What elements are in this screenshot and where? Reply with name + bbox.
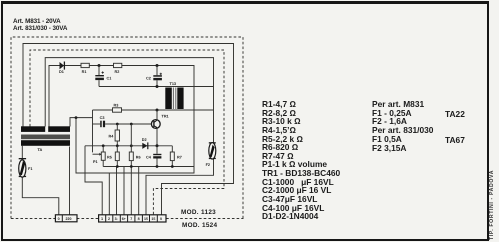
wire: collector rail with R3 [93, 109, 214, 111]
node: C4 bottom [156, 165, 159, 168]
node: R6 riser top [130, 123, 133, 126]
capacitor C4 [146, 146, 161, 167]
wire: stage left vertical [92, 110, 94, 152]
svg-text:C2: C2 [146, 77, 151, 81]
parts list right column [372, 100, 433, 152]
wire: fuse F1 branch to terminal 0 [22, 146, 59, 215]
wire: base wire [110, 123, 151, 125]
svg-text:C1: C1 [107, 77, 112, 81]
node: P1 top [102, 144, 105, 147]
terminal block mains 0/220 [55, 215, 77, 222]
dashed module boundary line through terminals [11, 218, 244, 220]
wire: cell4 stub [123, 167, 125, 216]
title line 1 [13, 19, 61, 25]
wire: bias rail (rail4) [85, 145, 172, 147]
svg-text:8: 8 [138, 217, 140, 221]
capacitor C3 [93, 116, 111, 127]
wire loop C (secondary rail) [45, 58, 213, 215]
wire: positive rail below C1/C2 [99, 86, 214, 88]
svg-text:R6: R6 [136, 156, 141, 160]
node: R6 bottom [130, 165, 133, 168]
potentiometer P1 [93, 146, 106, 167]
wire: cell6 stub [138, 167, 140, 216]
svg-text:C4: C4 [146, 156, 152, 160]
transformer T13 [165, 82, 183, 109]
svg-text:0: 0 [160, 217, 162, 221]
printer credit (vertical) [490, 169, 495, 239]
svg-text:220: 220 [66, 217, 72, 221]
wire: top supply rail with rectifier [49, 66, 194, 216]
capacitor C1 [95, 66, 111, 87]
svg-text:T13: T13 [170, 82, 177, 86]
resistor R1 [81, 63, 89, 74]
node: C2 tap [156, 64, 159, 67]
node: R5 bottom [116, 165, 119, 168]
wire loop A (outer solid rail) [23, 44, 234, 216]
svg-text:R3: R3 [114, 103, 119, 107]
svg-text:TA: TA [38, 148, 43, 152]
board label MOD. 1524 [182, 223, 217, 229]
svg-text:C3: C3 [100, 116, 105, 120]
resistor R4 [109, 124, 120, 146]
node: C2 to rail2 [156, 85, 159, 88]
parts list left column [262, 100, 340, 221]
transformer type TA67 [445, 136, 465, 144]
dashed shield box B [30, 50, 224, 215]
node: C1 tap [98, 64, 101, 67]
transistor TR1 [151, 110, 168, 146]
title line 2 [13, 26, 67, 32]
resistor R3 [113, 103, 122, 112]
node: R4/R5 [116, 144, 119, 147]
node: R4 top [116, 123, 119, 126]
fuse F2 [206, 142, 216, 167]
wire: return rail (rail5) [103, 166, 194, 168]
resistor R5 [107, 146, 119, 167]
wire: cell1 drop [85, 146, 102, 215]
wire: cell5 stub [130, 167, 132, 216]
svg-text:F1: F1 [28, 167, 32, 171]
transformer TA [21, 126, 70, 152]
svg-text:6+: 6+ [122, 217, 126, 221]
diode D2 [142, 138, 148, 149]
svg-text:R2: R2 [115, 70, 120, 74]
node: R7 bottom [171, 165, 174, 168]
svg-text:R7: R7 [177, 156, 182, 160]
wire: branch to terminal 1 [76, 118, 109, 173]
node: emitter junction [156, 144, 159, 147]
svg-text:2: 2 [108, 217, 110, 221]
svg-text:R5: R5 [107, 156, 112, 160]
capacitor C2 [146, 66, 162, 87]
wire: cell3 stub [116, 167, 118, 216]
resistor R7 [170, 146, 182, 167]
svg-text:15: 15 [144, 217, 148, 221]
wire: mains 220 feed [69, 147, 71, 216]
resistor R6 [129, 124, 140, 167]
diode D1 [59, 62, 64, 75]
svg-text:F2: F2 [206, 163, 210, 167]
svg-text:D2: D2 [142, 138, 147, 142]
svg-text:0: 0 [58, 217, 60, 221]
resistor R2 [114, 63, 122, 74]
svg-text:P1: P1 [93, 160, 98, 164]
transformer type TA22 [445, 110, 465, 118]
svg-text:7: 7 [130, 217, 132, 221]
fuse F1 [19, 158, 33, 177]
wire: TA to stage link [70, 118, 93, 127]
svg-text:R1: R1 [82, 70, 87, 74]
outer dashed enclosure [11, 37, 243, 219]
svg-text:1: 1 [101, 217, 103, 221]
terminal strip outputs [99, 215, 166, 222]
svg-text:TR1: TR1 [162, 115, 169, 119]
svg-text:D1: D1 [59, 70, 64, 74]
node: TA link branch [75, 116, 78, 119]
node: collector junction [156, 109, 159, 112]
svg-text:15: 15 [151, 217, 155, 221]
node: R6 top [130, 144, 133, 147]
svg-text:R4: R4 [109, 135, 115, 139]
board label MOD. 1123 [181, 210, 216, 216]
